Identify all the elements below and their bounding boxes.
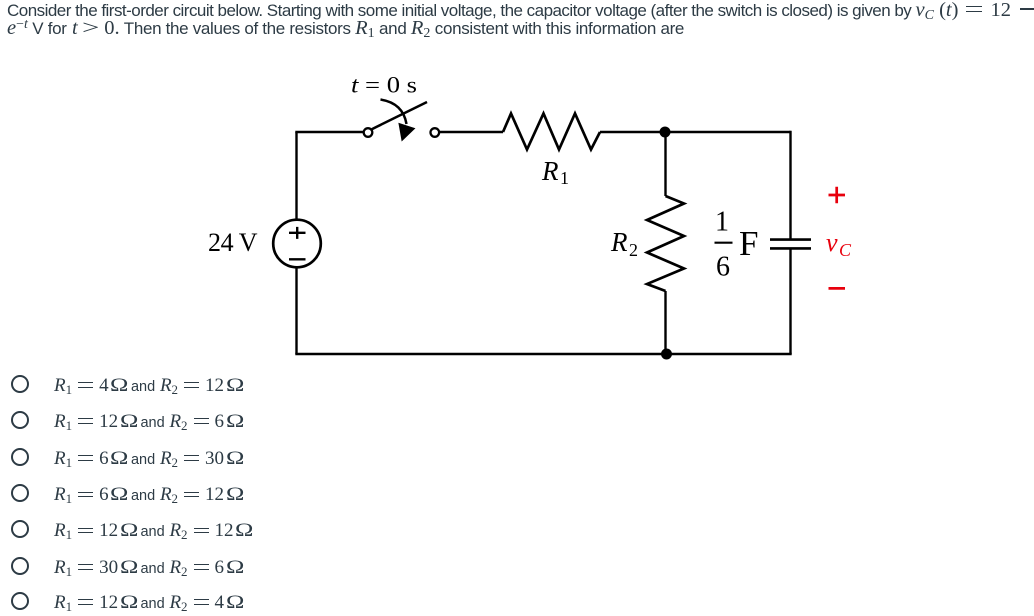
vc minus polarity mark xyxy=(829,287,846,290)
switch SW1 terminal circle left xyxy=(364,128,373,137)
option 2 xyxy=(0,410,1,412)
svg-text:6: 6 xyxy=(716,252,730,283)
svg-text:R: R xyxy=(541,156,559,186)
wire capacitor to bottom xyxy=(789,250,791,355)
switch blade xyxy=(372,102,427,129)
svg-text:v: v xyxy=(826,228,838,257)
wire node A to top-right corner xyxy=(665,131,791,133)
wire R1 to node A xyxy=(600,131,665,133)
svg-text:24 V: 24 V xyxy=(208,228,258,257)
voltage source plus sign xyxy=(289,227,306,239)
node B junction dot xyxy=(661,349,672,360)
switch closing arc xyxy=(381,100,407,125)
option 5 xyxy=(0,519,1,521)
vc plus polarity mark xyxy=(829,187,846,203)
option 4 xyxy=(0,483,1,485)
node A junction dot xyxy=(660,127,671,138)
question paragraph line 1 xyxy=(7,0,1034,24)
option 1 xyxy=(0,374,1,376)
switch arrowhead xyxy=(399,124,415,141)
svg-text:t = 0 s: t = 0 s xyxy=(351,73,417,98)
wire R2 to bottom node B xyxy=(664,291,666,354)
svg-text:C: C xyxy=(839,240,852,260)
resistor R1 zigzag xyxy=(503,114,600,150)
svg-text:2: 2 xyxy=(629,240,638,260)
svg-text:R: R xyxy=(610,227,628,257)
capacitor C1 plates xyxy=(770,240,811,249)
wire left vertical (source branch) xyxy=(295,132,297,354)
wire switch to R1 xyxy=(440,131,504,133)
svg-text:F: F xyxy=(739,224,758,263)
option 7 xyxy=(0,591,1,593)
svg-text:1: 1 xyxy=(560,168,569,188)
question paragraph line 2 xyxy=(7,17,684,42)
resistor R2 zigzag xyxy=(647,196,684,291)
wire node A down to R2 xyxy=(664,132,666,196)
switch terminal circle right xyxy=(431,128,440,137)
svg-text:1: 1 xyxy=(715,207,729,238)
option 3 xyxy=(0,447,1,449)
wire right vertical to capacitor xyxy=(789,131,791,239)
wire bottom xyxy=(295,353,791,355)
voltage source V1 circle xyxy=(273,220,321,268)
voltage source minus sign xyxy=(289,258,306,260)
option 6 xyxy=(0,556,1,558)
wire top left (to switch) xyxy=(295,131,363,133)
